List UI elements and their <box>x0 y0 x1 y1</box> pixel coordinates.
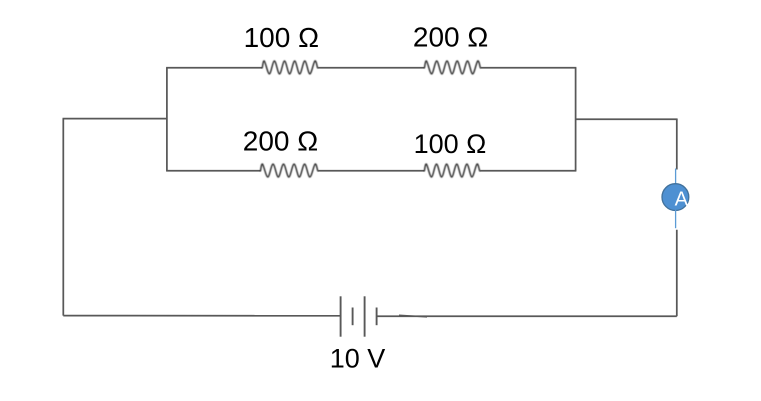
resistor R3 200 ohm zigzag <box>261 164 318 177</box>
wire top branch segment 1 <box>166 67 262 69</box>
wire bottom right horizontal <box>377 315 677 317</box>
wire jog segment (overlap artifact) <box>399 315 427 317</box>
svg-text:200 Ω: 200 Ω <box>243 126 318 157</box>
wire bottom branch segment 3 <box>480 170 577 172</box>
ammeter A1 circle <box>662 184 689 211</box>
wire right middle horizontal <box>576 118 678 120</box>
resistor R1 100 ohm zigzag <box>262 61 317 74</box>
resistor R2 200 ohm zigzag <box>425 61 481 74</box>
wire bottom left horizontal <box>63 315 340 317</box>
wire bottom branch segment 2 <box>318 170 425 172</box>
wire bottom branch segment 1 <box>166 170 260 172</box>
svg-text:100 Ω: 100 Ω <box>414 129 487 159</box>
wire top branch segment 2 <box>318 67 425 69</box>
wire right vertical lower <box>676 230 678 316</box>
svg-text:100 Ω: 100 Ω <box>244 22 319 53</box>
battery B1 tall plate 1 <box>340 296 342 336</box>
wire right vertical upper (to ammeter) <box>676 119 678 169</box>
battery B1 short plate 2 <box>376 308 378 326</box>
wire top branch segment 3 <box>480 67 576 69</box>
battery B1 tall plate 2 <box>364 296 366 336</box>
svg-text:10 V: 10 V <box>330 344 386 374</box>
ammeter lead upper (blue) <box>675 169 677 185</box>
svg-text:200 Ω: 200 Ω <box>413 21 488 52</box>
battery B1 short plate 1 <box>352 308 354 326</box>
svg-text:A: A <box>675 188 689 210</box>
ammeter lead lower (blue) <box>675 210 677 228</box>
wire inner left vertical <box>166 68 168 171</box>
wire left middle horizontal <box>63 118 167 120</box>
wire inner right vertical <box>575 68 577 171</box>
resistor R4 100 ohm zigzag <box>424 164 479 177</box>
wire left vertical <box>62 119 64 316</box>
